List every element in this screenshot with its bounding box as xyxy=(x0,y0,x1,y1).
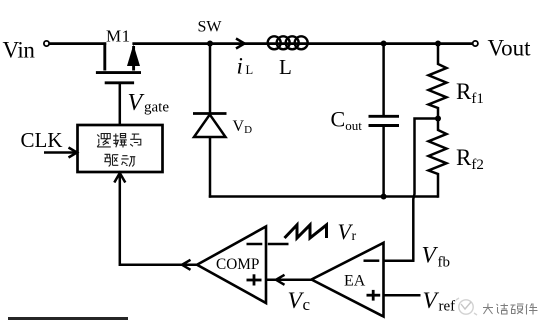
divider bar bottom left xyxy=(8,317,128,320)
EA plus sign xyxy=(367,290,381,301)
watermark 大话硬件 (drawn strokes) xyxy=(483,304,538,315)
sawtooth Vr symbol xyxy=(285,225,327,238)
node divider junction xyxy=(435,116,441,122)
transistor M1 xyxy=(96,42,141,82)
svg-text:V: V xyxy=(423,288,440,314)
svg-text:r: r xyxy=(352,229,357,244)
diode VD xyxy=(193,44,227,198)
svg-text:CLK: CLK xyxy=(21,128,63,152)
wire feedback tap with crossover jog xyxy=(413,119,438,261)
svg-text:V: V xyxy=(128,90,145,116)
svg-text:i: i xyxy=(237,54,243,79)
svg-text:M1: M1 xyxy=(106,27,131,46)
wire CLK arrow xyxy=(44,148,77,158)
comparator minus input wire xyxy=(247,243,263,246)
svg-text:Rf1: Rf1 xyxy=(456,79,484,107)
wire top rail right segment xyxy=(132,42,472,45)
wire COMP out to logic box xyxy=(114,173,197,270)
svg-text:V: V xyxy=(422,243,439,269)
svg-text:Vout: Vout xyxy=(488,36,532,61)
wire arrow iL xyxy=(236,39,245,49)
svg-text:ref: ref xyxy=(439,299,456,315)
node top Cout xyxy=(381,41,387,47)
wire EA plus to Vref xyxy=(384,294,421,297)
terminal Vout xyxy=(473,41,478,46)
label 驱动 (drive, drawn strokes) xyxy=(104,154,135,166)
wire top rail left segment xyxy=(49,42,106,45)
svg-text:Cout: Cout xyxy=(331,107,363,134)
capacitor Cout xyxy=(369,44,400,197)
svg-text:Rf2: Rf2 xyxy=(456,145,484,173)
inductor L xyxy=(268,36,308,49)
svg-text:Vin: Vin xyxy=(3,38,36,63)
wire EA out to COMP plus xyxy=(266,275,312,285)
EA minus input wire to Vfb xyxy=(364,259,380,262)
error amplifier EA xyxy=(312,243,384,317)
svg-text:SW: SW xyxy=(198,19,223,36)
svg-text:VD: VD xyxy=(233,118,253,136)
watermark sketch icon xyxy=(456,298,477,315)
node SW xyxy=(207,41,213,47)
svg-text:L: L xyxy=(279,55,292,79)
svg-text:c: c xyxy=(303,295,311,314)
wire gate to logic box xyxy=(119,83,122,125)
svg-text:EA: EA xyxy=(344,273,366,290)
terminal Vin xyxy=(44,41,49,46)
svg-text:COMP: COMP xyxy=(216,256,259,273)
node bottom Cout xyxy=(381,194,387,200)
wire bottom rail xyxy=(209,195,438,198)
comparator COMP xyxy=(197,227,266,304)
label 逻辑与 (logic-and, drawn strokes) xyxy=(97,134,141,148)
comparator plus sign xyxy=(247,274,262,285)
resistor Rf2 xyxy=(429,119,447,198)
svg-text:gate: gate xyxy=(144,100,169,116)
resistor Rf1 xyxy=(429,44,447,119)
node top Rf1 xyxy=(435,41,441,47)
svg-text:fb: fb xyxy=(438,255,451,271)
svg-text:L: L xyxy=(246,63,254,77)
logic box U1 xyxy=(78,125,163,172)
